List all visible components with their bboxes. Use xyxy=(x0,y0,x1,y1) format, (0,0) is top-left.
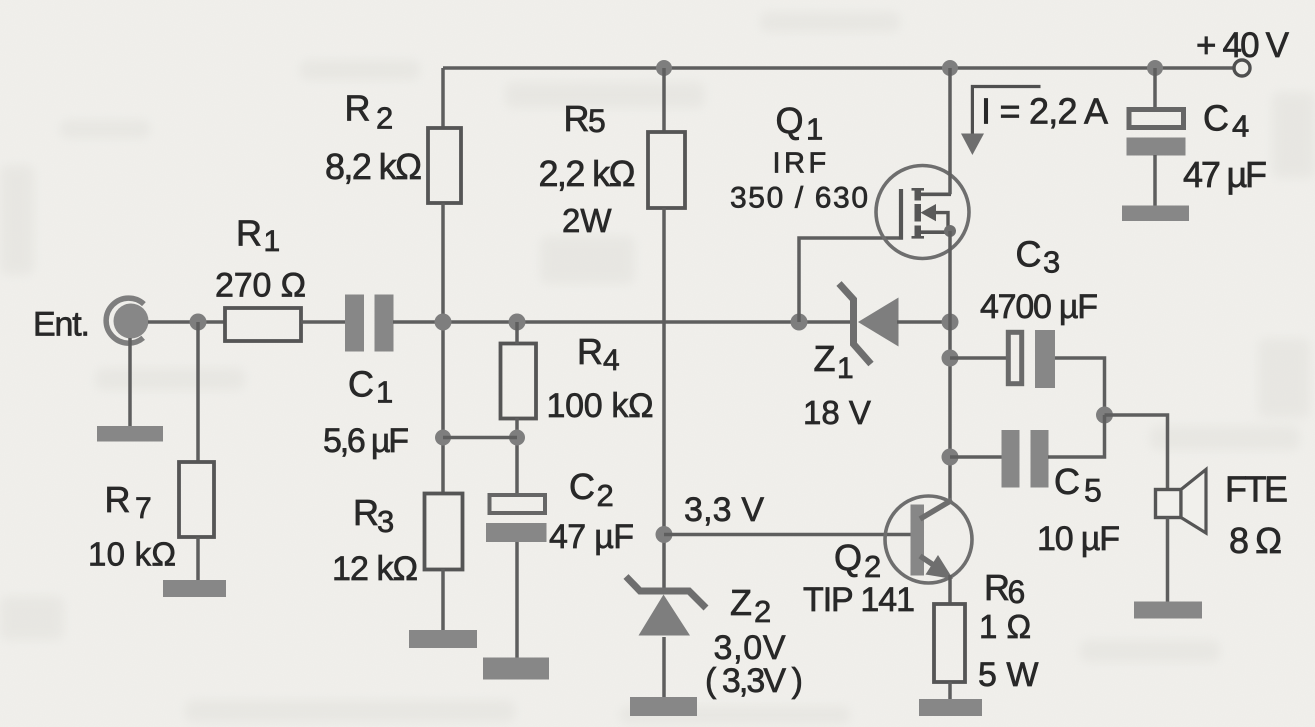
ground (C2) xyxy=(483,658,549,680)
svg-text:C: C xyxy=(1016,234,1042,275)
wire output to speaker xyxy=(1105,415,1168,491)
svg-text:5: 5 xyxy=(588,103,606,139)
node rail-Q1 junction xyxy=(942,60,958,76)
svg-text:FTE: FTE xyxy=(1225,469,1288,510)
wire Q2 emitter to R6 xyxy=(948,575,952,605)
svg-text:47 µF: 47 µF xyxy=(549,518,634,556)
zener Z2 triangle xyxy=(639,595,691,636)
capacitor C3 right plate xyxy=(1035,330,1055,388)
svg-text:R: R xyxy=(236,213,262,254)
svg-text:5: 5 xyxy=(1084,473,1102,509)
svg-text:2: 2 xyxy=(754,594,771,629)
svg-text:IRF: IRF xyxy=(773,148,830,180)
node rail-R5 junction xyxy=(656,60,672,76)
svg-text:Z: Z xyxy=(814,338,836,379)
ground (C4) xyxy=(1122,206,1189,222)
svg-text:Q: Q xyxy=(834,537,862,578)
svg-text:18 V: 18 V xyxy=(803,394,871,431)
Q2 collector line xyxy=(920,500,952,519)
wire connector to ground xyxy=(128,338,132,427)
node output-C3 xyxy=(942,350,959,367)
svg-text:1: 1 xyxy=(837,352,854,385)
wire +40V top rail xyxy=(443,66,1234,70)
wire to C3 xyxy=(950,356,1007,360)
svg-text:C: C xyxy=(1203,98,1229,139)
svg-text:R: R xyxy=(577,331,603,372)
svg-text:4700 µF: 4700 µF xyxy=(980,288,1098,326)
svg-text:4: 4 xyxy=(603,344,620,377)
svg-text:( 3,3V ): ( 3,3V ) xyxy=(705,662,803,700)
Q1 channel segment top xyxy=(915,188,922,201)
svg-text:Q: Q xyxy=(776,100,804,141)
node R4-R3 link right xyxy=(509,430,525,446)
svg-text:3: 3 xyxy=(1043,245,1060,280)
svg-text:C: C xyxy=(1054,461,1080,502)
ground (Z2) xyxy=(630,697,697,716)
svg-text:2W: 2W xyxy=(562,202,612,239)
wire C1 to Z1 (signal line) xyxy=(393,320,850,324)
wire speaker to ground xyxy=(1166,518,1170,603)
svg-text:100 kΩ: 100 kΩ xyxy=(547,387,654,425)
svg-text:1: 1 xyxy=(264,225,281,258)
resistor R2 xyxy=(428,128,461,203)
svg-text:1: 1 xyxy=(806,112,823,147)
transistor Q1 circle xyxy=(876,166,969,259)
wire rail to C4 xyxy=(1153,68,1157,108)
svg-text:350 / 630: 350 / 630 xyxy=(730,182,868,215)
Q1 channel segment bottom xyxy=(915,226,922,239)
current arrow annotation xyxy=(972,87,1040,136)
capacitor C2 top plate xyxy=(490,495,546,513)
svg-text:5,6 µF: 5,6 µF xyxy=(323,422,409,460)
speaker box xyxy=(1156,490,1182,518)
wire C3 to corner xyxy=(1055,358,1105,416)
wire rail to R2 xyxy=(441,68,445,129)
ground (R3) xyxy=(409,630,477,648)
svg-text:R: R xyxy=(345,88,371,129)
zener Z1 triangle xyxy=(858,298,899,347)
svg-text:4: 4 xyxy=(1232,109,1249,144)
ground (input) xyxy=(97,426,163,442)
svg-text:47 µF: 47 µF xyxy=(1183,154,1267,195)
node R4-R3 link left xyxy=(435,430,451,446)
svg-text:270 Ω: 270 Ω xyxy=(215,267,306,305)
wire Z1 to Q1 column xyxy=(897,320,951,324)
svg-text:7: 7 xyxy=(135,492,152,525)
node input/R7 junction xyxy=(190,314,207,331)
Q2 emitter arrow xyxy=(926,555,954,579)
Q2 base bar xyxy=(911,505,925,576)
Q1 channel segment mid xyxy=(915,204,922,222)
wire R3 to ground xyxy=(441,569,445,631)
svg-text:8,2 kΩ: 8,2 kΩ xyxy=(325,146,422,187)
svg-text:2: 2 xyxy=(597,478,614,513)
node rail-C4 junction xyxy=(1147,60,1163,76)
svg-text:1: 1 xyxy=(376,375,393,410)
wire Z2 to ground xyxy=(662,637,666,698)
svg-text:R: R xyxy=(564,98,590,139)
svg-text:2,2 kΩ: 2,2 kΩ xyxy=(539,153,636,194)
wire R5 bottom down to 3,3V node xyxy=(662,208,666,592)
svg-text:5 W: 5 W xyxy=(978,656,1038,694)
wire gate of Q1 xyxy=(799,238,899,322)
speaker horn xyxy=(1181,470,1206,534)
input connector Ent. xyxy=(114,304,149,339)
wire rail to Q1 drain xyxy=(948,68,952,194)
wire R3-R4 cross link xyxy=(443,436,517,440)
capacitor C2 bottom plate xyxy=(486,523,547,542)
wire R1 to C1 xyxy=(301,320,346,324)
node signal-R2R3 xyxy=(435,314,452,331)
capacitor C4 bottom plate xyxy=(1127,138,1186,156)
wire C4 to ground xyxy=(1153,155,1157,206)
svg-text:12 kΩ: 12 kΩ xyxy=(332,550,418,588)
resistor R1 xyxy=(225,308,301,341)
svg-text:R: R xyxy=(984,567,1010,608)
wire R2 bottom to signal node xyxy=(441,203,445,494)
wire junction down to R7 xyxy=(196,322,200,463)
wire to C5 xyxy=(950,455,1003,459)
wire Q1 source down to Q2 collector xyxy=(948,231,952,503)
svg-text:C: C xyxy=(569,466,595,507)
resistor R3 xyxy=(425,494,463,570)
wire connector to R1 xyxy=(148,320,226,324)
wire R6 to ground xyxy=(948,682,952,700)
node signal-output column xyxy=(942,314,959,331)
wire C2 to ground xyxy=(515,542,519,658)
svg-text:8 Ω: 8 Ω xyxy=(1229,520,1282,561)
svg-text:R: R xyxy=(353,492,379,533)
resistor R7 xyxy=(179,462,214,537)
node signal-gate xyxy=(791,314,808,331)
wire base line to Q2 xyxy=(664,533,911,537)
svg-text:6: 6 xyxy=(1008,574,1026,610)
resistor R6 xyxy=(934,604,965,682)
svg-text:I = 2,2 A: I = 2,2 A xyxy=(981,91,1108,132)
ground (R7) xyxy=(163,580,226,597)
resistor R4 xyxy=(501,344,537,419)
Q1 source stub xyxy=(919,230,951,234)
svg-text:R: R xyxy=(105,479,131,520)
svg-text:10 kΩ: 10 kΩ xyxy=(88,536,176,573)
svg-text:1 Ω: 1 Ω xyxy=(979,608,1031,645)
zener Z2 bar xyxy=(626,577,706,609)
Q1 gate bar xyxy=(899,189,903,240)
svg-text:2: 2 xyxy=(376,101,393,136)
resistor R5 xyxy=(648,132,685,208)
wire rail to R5 xyxy=(662,68,666,133)
node signal-R4 xyxy=(509,314,526,331)
Q1 body connection xyxy=(934,213,948,232)
svg-text:10 µF: 10 µF xyxy=(1037,520,1120,558)
input connector arc xyxy=(106,298,144,343)
capacitor C4 top plate xyxy=(1129,110,1184,128)
node 3,3V junction xyxy=(656,526,673,543)
zener Z1 bar xyxy=(839,284,871,365)
capacitor C5 xyxy=(1002,430,1020,488)
ground (FTE) xyxy=(1134,602,1202,619)
wire C5 to corner up xyxy=(1048,415,1105,457)
ground (R6) xyxy=(919,699,982,716)
Q1 drain stub xyxy=(919,193,951,197)
wire R4 top xyxy=(515,322,519,344)
Q1 body arrow xyxy=(921,204,937,221)
node output mix xyxy=(1096,407,1113,424)
node output-C5 xyxy=(942,449,959,466)
svg-text:Z: Z xyxy=(730,582,752,623)
wire R4 bottom to C2 xyxy=(515,418,519,493)
capacitor C3 left plate xyxy=(1008,332,1021,383)
svg-text:C: C xyxy=(348,364,374,405)
svg-text:3,3 V: 3,3 V xyxy=(684,491,764,529)
capacitor C1 xyxy=(345,295,364,352)
svg-text:3: 3 xyxy=(377,504,394,539)
svg-text:TIP 141: TIP 141 xyxy=(803,581,915,619)
Q2 emitter line xyxy=(920,556,944,572)
node Q1 source dot xyxy=(944,225,956,237)
wire R7 to ground xyxy=(196,537,200,581)
svg-text:Ent.: Ent. xyxy=(33,306,90,344)
svg-text:2: 2 xyxy=(864,549,881,584)
svg-text:+ 40 V: + 40 V xyxy=(1196,26,1290,65)
terminal +40V open circle xyxy=(1234,60,1250,76)
transistor Q2 circle xyxy=(885,496,972,583)
